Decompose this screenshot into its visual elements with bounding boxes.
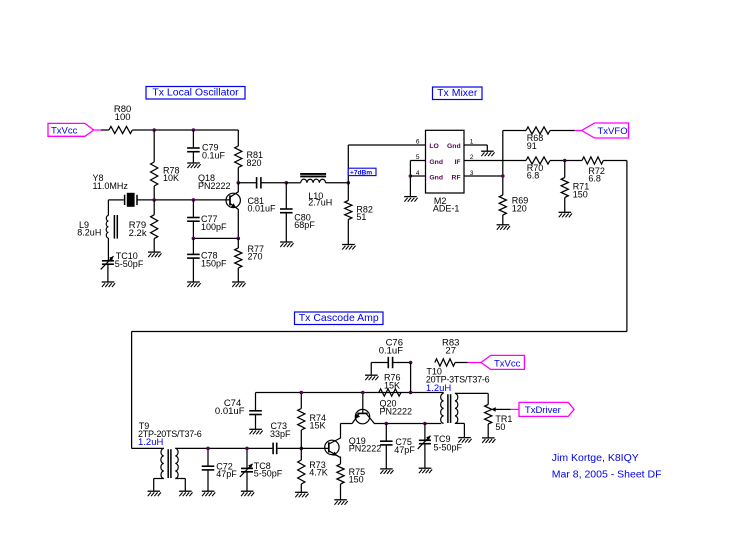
svg-text:47pF: 47pF (394, 445, 415, 455)
svg-text:5: 5 (416, 154, 420, 161)
svg-text:PN2222: PN2222 (380, 407, 413, 417)
svg-text:Gnd: Gnd (429, 159, 443, 166)
svg-text:47pF: 47pF (216, 469, 237, 479)
svg-text:4.7K: 4.7K (309, 468, 328, 478)
svg-text:Tx Local Oscillator: Tx Local Oscillator (152, 87, 239, 99)
svg-text:Jim Kortge, K8IQY: Jim Kortge, K8IQY (552, 452, 639, 464)
svg-text:0.01uF: 0.01uF (248, 204, 277, 214)
svg-text:5-50pF: 5-50pF (434, 442, 463, 452)
svg-text:33pF: 33pF (270, 429, 291, 439)
svg-text:15K: 15K (310, 421, 326, 431)
svg-text:ADE-1: ADE-1 (433, 204, 460, 214)
svg-text:0.1uF: 0.1uF (202, 150, 226, 160)
svg-text:1: 1 (470, 139, 474, 146)
svg-text:2.2k: 2.2k (129, 228, 147, 239)
svg-text:4: 4 (416, 170, 420, 177)
svg-text:15K: 15K (384, 380, 400, 390)
svg-text:150: 150 (573, 190, 588, 200)
svg-text:0.01uF: 0.01uF (215, 406, 245, 417)
svg-text:6.8: 6.8 (527, 171, 540, 181)
svg-text:TxVcc: TxVcc (51, 126, 78, 137)
svg-text:11.0MHz: 11.0MHz (93, 181, 129, 191)
svg-text:5-50pF: 5-50pF (254, 468, 283, 478)
svg-text:6.8: 6.8 (588, 174, 601, 184)
svg-text:50: 50 (495, 422, 505, 432)
svg-text:150pF: 150pF (201, 258, 227, 268)
svg-text:270: 270 (248, 252, 263, 262)
svg-text:Gnd: Gnd (447, 143, 461, 150)
svg-text:100: 100 (115, 112, 131, 123)
svg-text:TxVFO: TxVFO (598, 126, 628, 137)
svg-text:+7dBm: +7dBm (350, 169, 372, 176)
svg-text:120: 120 (512, 203, 527, 213)
svg-text:68pF: 68pF (294, 220, 315, 230)
svg-text:51: 51 (356, 212, 366, 222)
svg-text:Tx Mixer: Tx Mixer (437, 87, 478, 99)
svg-text:IF: IF (455, 159, 461, 166)
svg-text:820: 820 (247, 158, 262, 168)
svg-text:Tx Cascode Amp: Tx Cascode Amp (299, 312, 379, 324)
svg-text:6: 6 (416, 139, 420, 146)
svg-text:91: 91 (527, 141, 537, 151)
svg-text:0.1uF: 0.1uF (379, 346, 403, 357)
svg-text:PN2222: PN2222 (198, 181, 231, 191)
svg-text:Mar 8, 2005 - Sheet DF: Mar 8, 2005 - Sheet DF (552, 468, 662, 480)
svg-text:5-50pF: 5-50pF (115, 259, 144, 269)
svg-text:1.2uH: 1.2uH (426, 383, 451, 394)
svg-text:Gnd: Gnd (429, 175, 443, 182)
svg-text:1.2uH: 1.2uH (138, 437, 163, 448)
svg-text:27: 27 (445, 346, 456, 357)
svg-text:RF: RF (452, 175, 461, 182)
svg-text:8.2uH: 8.2uH (77, 228, 101, 238)
svg-text:150: 150 (349, 475, 364, 485)
svg-text:LO: LO (429, 143, 438, 150)
svg-text:TxVcc: TxVcc (494, 358, 521, 369)
svg-text:10K: 10K (163, 173, 179, 183)
svg-text:100pF: 100pF (201, 222, 227, 232)
svg-text:2.7uH: 2.7uH (308, 198, 332, 208)
svg-text:TxDriver: TxDriver (525, 405, 561, 416)
svg-text:3: 3 (470, 170, 474, 177)
svg-text:PN2222: PN2222 (349, 444, 382, 454)
svg-text:2: 2 (470, 154, 474, 161)
